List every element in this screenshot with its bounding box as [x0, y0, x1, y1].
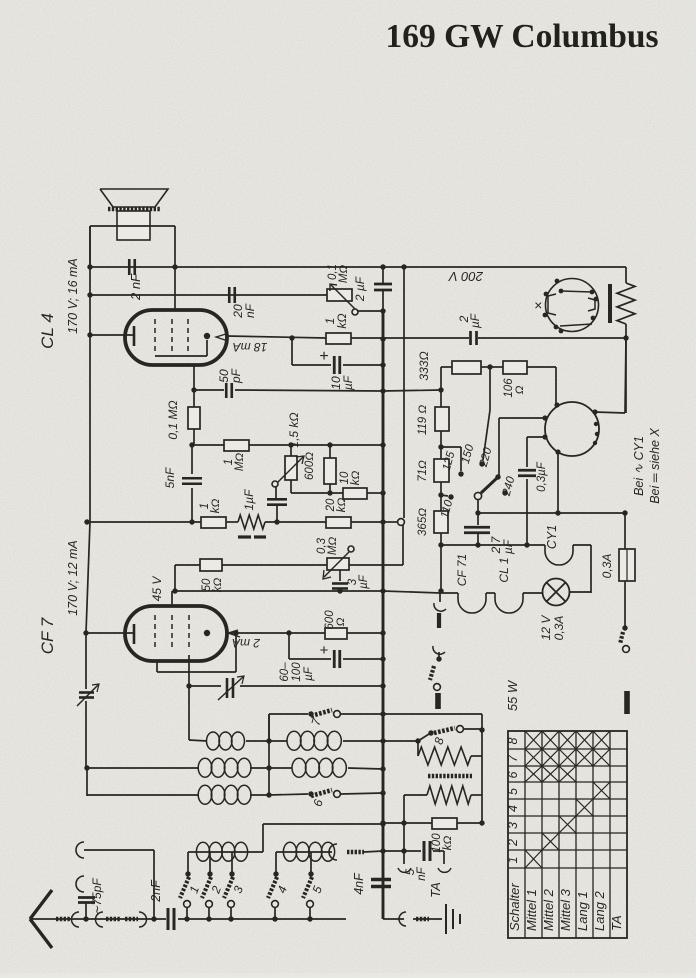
wire: CF7 interior down	[188, 655, 190, 686]
coil row 2 (y768)	[87, 758, 383, 777]
svg-text:0,3A: 0,3A	[552, 616, 566, 641]
wire: row1 extension to x482	[383, 714, 482, 823]
potentiometer 0,3 MOhm	[323, 546, 354, 579]
svg-text:1: 1	[506, 857, 520, 864]
capacitor 2nF antenna	[168, 908, 174, 930]
wire: heater top (y513)	[478, 512, 625, 514]
node: bus CF7 anode row	[380, 630, 385, 635]
heater dropper zigzag with bar	[610, 267, 635, 338]
node: bus band row	[380, 821, 385, 826]
svg-text:1µF: 1µF	[242, 489, 256, 511]
node: right edge anode wire	[623, 335, 628, 340]
node: anode/10uF junction	[289, 335, 294, 340]
wire: 200V rail	[88, 266, 626, 268]
svg-text:5nF: 5nF	[163, 467, 177, 488]
resistor 71 Ohm	[434, 447, 449, 495]
resistor zigzag (lower)	[404, 786, 482, 823]
node: x418	[415, 738, 420, 743]
node: bus 50pF row	[380, 388, 385, 393]
connector hook ground	[399, 912, 406, 926]
wire: right edge vertical	[625, 338, 627, 413]
svg-text:4nF: 4nF	[352, 872, 366, 895]
switch 6	[269, 790, 383, 797]
band coil left	[188, 842, 263, 861]
capacitor 3uF	[332, 570, 348, 591]
wire: 0,3M row	[175, 525, 403, 565]
svg-text:kΩ: kΩ	[442, 836, 454, 851]
svg-text:kΩ: kΩ	[335, 313, 349, 328]
wire: 100k row	[383, 822, 482, 824]
node: 3uF bottom	[337, 588, 342, 593]
node: rail x404 branch	[401, 264, 406, 269]
node: 150 tap	[438, 444, 443, 449]
wire: CL4 anode line	[227, 336, 626, 338]
svg-text:2nF: 2nF	[149, 879, 163, 903]
wire: corner into band coils	[262, 824, 264, 852]
node: rail row2	[84, 765, 89, 770]
node: chain top	[438, 387, 443, 392]
connector bars antenna	[56, 917, 138, 922]
wire: heater chain row	[441, 592, 591, 593]
CF7 cathode	[86, 624, 134, 644]
svg-text:45 V: 45 V	[150, 576, 164, 602]
svg-text:2: 2	[506, 839, 520, 847]
resistor 1 MOhm	[224, 440, 249, 451]
resistor 100 kOhm	[432, 818, 457, 829]
svg-text:2 µF: 2 µF	[353, 276, 367, 302]
loudspeaker	[100, 189, 168, 240]
wire: x404 vertical from rail	[403, 267, 405, 518]
capacitor 60-100uF electrolytic	[289, 633, 383, 668]
svg-text:MΩ: MΩ	[327, 537, 339, 556]
CF7 screen loop	[157, 633, 236, 672]
svg-text:+: +	[320, 642, 329, 659]
node: bus 10k row	[380, 490, 385, 495]
node: 5nF bottom	[189, 519, 194, 524]
svg-text:×: ×	[534, 297, 542, 313]
svg-text:CF 7: CF 7	[38, 617, 57, 654]
svg-text:119 Ω: 119 Ω	[417, 405, 429, 436]
table header numbers	[506, 737, 520, 863]
node: row3 tap	[266, 792, 271, 797]
tap 110	[441, 494, 454, 499]
coil row 1 (y741)	[189, 731, 383, 750]
CF7 anode	[204, 630, 210, 636]
svg-text:170 V; 12 mA: 170 V; 12 mA	[66, 540, 80, 616]
connector bar (coil to bus)	[347, 851, 383, 852]
node: rail 1k row	[84, 519, 89, 524]
svg-text:kΩ: kΩ	[212, 578, 224, 593]
svg-text:Mittel 2: Mittel 2	[541, 888, 556, 931]
node: screen junction	[191, 387, 196, 392]
wire: 1M row	[192, 444, 383, 446]
svg-text:Ω: Ω	[335, 617, 347, 626]
heater CL1 hump	[495, 593, 523, 613]
node: anode-60uF junction	[286, 630, 291, 635]
svg-text:2 nF: 2 nF	[128, 273, 143, 301]
node: 600 res top	[327, 442, 332, 447]
wire: main bus vertical	[382, 311, 385, 919]
svg-text:TA: TA	[609, 915, 624, 931]
svg-text:3: 3	[506, 822, 520, 829]
svg-text:CL 1: CL 1	[497, 557, 511, 582]
hook TA left	[398, 868, 411, 872]
wire: pot wiper to bus	[358, 310, 383, 312]
tap 150	[479, 367, 490, 467]
hook 75pF	[76, 876, 84, 892]
wire: selector up to CY1	[499, 418, 546, 477]
node 240	[502, 490, 507, 495]
svg-text:169 GW Columbus: 169 GW Columbus	[385, 18, 658, 55]
antenna	[30, 890, 56, 948]
core bar (hatched)	[428, 774, 472, 779]
node: bus 60uF row	[380, 656, 385, 661]
wire: 50pF row to resistor chain	[383, 390, 441, 391]
svg-text:MΩ: MΩ	[338, 265, 350, 284]
wire: 365 down to common	[440, 545, 442, 591]
svg-text:TA: TA	[428, 882, 443, 898]
svg-text:8: 8	[506, 737, 520, 744]
CL4 anode	[204, 333, 210, 339]
band coil right	[276, 842, 335, 861]
svg-text:71Ω: 71Ω	[417, 460, 429, 482]
dial lamp 12V 0,3A	[543, 579, 570, 606]
capacitor 5nF TA	[383, 841, 444, 861]
svg-text:CY1: CY1	[545, 525, 559, 549]
CY1 pins	[542, 402, 599, 454]
svg-text:60–: 60–	[279, 662, 291, 682]
svg-text:pF: pF	[229, 368, 243, 384]
node: coupling-2nF	[151, 916, 156, 921]
svg-text:7: 7	[506, 754, 520, 762]
node: row2 tap	[266, 765, 271, 770]
svg-text:365Ω: 365Ω	[417, 508, 429, 536]
resistor (600 row second)	[324, 445, 336, 493]
heater CY1 hump	[545, 545, 591, 593]
node: loop-anode	[233, 630, 238, 635]
resistor 1 kOhm (CL4 anode)	[326, 333, 351, 344]
coil row 3 (y795)	[87, 785, 269, 804]
resistor 119 Ohm	[435, 390, 449, 447]
heater CF71 hump	[458, 593, 486, 613]
svg-text:µF: µF	[501, 539, 515, 554]
wire: CF7 anode row	[227, 632, 383, 634]
band switch contact 1	[180, 852, 190, 919]
svg-text:µF: µF	[341, 375, 355, 390]
svg-text:6: 6	[506, 771, 520, 778]
capacitor 75pF trimmer	[78, 898, 95, 920]
CL4 screen bottom strap	[155, 340, 207, 356]
node: rail-cathode CL4	[87, 332, 92, 337]
CL4 cathode	[90, 326, 134, 346]
wire: x404 TA vertical	[403, 823, 405, 864]
table X marks	[525, 731, 610, 868]
node: tap 2	[207, 871, 212, 876]
resistor 1 kOhm (cathode)	[201, 517, 226, 528]
wire: screen feed	[90, 294, 327, 296]
svg-text:200 V: 200 V	[448, 269, 484, 284]
mains switch right	[620, 625, 629, 652]
svg-text:nF: nF	[243, 303, 257, 318]
svg-text:Schalter: Schalter	[507, 883, 522, 931]
wire: CL4 screen lower	[194, 365, 383, 391]
fuse 0,3A	[619, 549, 635, 628]
switch 7	[269, 710, 383, 741]
wire: mains left lead	[439, 593, 441, 602]
node: bus 1M row	[380, 442, 385, 447]
node: bus 5nF row	[380, 848, 385, 853]
node: rail/transformer left	[87, 264, 92, 269]
svg-text:Ω: Ω	[514, 385, 526, 394]
node: x189 osc	[186, 683, 191, 688]
node: bus-anode wire	[380, 336, 385, 341]
band switch contact 2	[202, 852, 212, 919]
node: sw6 pivot	[308, 791, 313, 796]
node: tap 3	[229, 871, 234, 876]
svg-text:nF: nF	[416, 866, 428, 880]
wire: grid/heater common line	[175, 565, 440, 593]
CL4 grids (dashed)	[155, 319, 188, 355]
wire: CY1 anode to right edge	[595, 338, 626, 413]
node: rail/transformer right	[172, 264, 177, 269]
resistor 106 Ohm	[490, 361, 556, 404]
ground symbol	[446, 904, 460, 934]
wire: transformer to CL4 top	[174, 267, 176, 311]
hook antenna upper	[76, 842, 84, 858]
svg-text:+: +	[319, 348, 328, 365]
node: wire contact 3	[228, 916, 233, 921]
wire: right edge fuse lead	[624, 513, 626, 549]
mains prong left	[435, 693, 441, 709]
switch 8	[383, 726, 482, 741]
contact circle right of bus	[383, 519, 404, 526]
svg-text:0,3A: 0,3A	[600, 554, 614, 579]
voltage selector arm	[474, 474, 500, 499]
svg-text:1,5 kΩ: 1,5 kΩ	[287, 412, 301, 447]
capacitor 0,3uF	[518, 437, 545, 545]
svg-text:MΩ: MΩ	[234, 453, 246, 472]
arrow anode CL4	[216, 334, 228, 341]
node: 333-106 junction	[487, 364, 492, 369]
wire: CY1 cathode down	[557, 452, 559, 513]
node: wire contact 2	[206, 916, 211, 921]
svg-text:µF: µF	[468, 313, 482, 328]
tube CL4	[125, 310, 227, 365]
hook TA right	[438, 851, 451, 872]
svg-text:Mittel 1: Mittel 1	[524, 889, 539, 931]
node: bus-wiper	[380, 308, 385, 313]
svg-text:∼75pF: ∼75pF	[90, 878, 104, 916]
node: 365 bottom row	[438, 542, 443, 547]
node: 110 tap	[438, 492, 443, 497]
node: selector bottom	[475, 510, 480, 515]
svg-text:12 V: 12 V	[539, 615, 553, 641]
wire: antenna line	[56, 918, 346, 920]
node: tap 1	[185, 871, 190, 876]
node: sw7 pivot	[308, 711, 313, 716]
wire: bus bottom to ground	[383, 889, 442, 919]
node: 600 pot top	[288, 442, 293, 447]
wire: 10k row	[291, 492, 383, 494]
resistor 333 Ohm	[441, 361, 490, 390]
node: wire contact 4	[272, 916, 277, 921]
wire: heater mid (y545)	[441, 544, 545, 546]
node: bus row sw7	[380, 711, 385, 716]
resistor 50 kOhm	[200, 559, 222, 571]
connector mains left	[433, 603, 446, 658]
resistor zigzag (osc feedback upper)	[418, 741, 482, 765]
tube socket X	[543, 279, 599, 334]
capacitor 2uF (anode line)	[471, 331, 477, 345]
node: common-441	[438, 588, 443, 593]
tap 125	[441, 447, 464, 477]
node: 2,7uF bottom	[475, 542, 480, 547]
table band names	[507, 883, 624, 931]
node: bus row1	[380, 738, 385, 743]
node: right edge heater	[622, 510, 627, 515]
svg-text:0,1 MΩ: 0,1 MΩ	[166, 400, 180, 439]
svg-text:Mittel 3: Mittel 3	[558, 888, 573, 931]
node: grid CF7	[172, 588, 177, 593]
switch table (Schalter)	[508, 731, 627, 938]
capacitor 5nF	[182, 445, 202, 522]
svg-text:CF 71: CF 71	[455, 554, 469, 586]
node: x404 100k row	[401, 820, 406, 825]
capacitor 50pF	[226, 383, 232, 398]
svg-text:100: 100	[291, 662, 303, 682]
node: wire contact 1	[184, 916, 189, 921]
node: grid-R junction	[189, 442, 194, 447]
band switch contact 3	[224, 852, 234, 919]
node: row1 tap	[266, 738, 271, 743]
node: rail-screen	[87, 292, 92, 297]
output transformer loop	[90, 226, 175, 267]
svg-text:600Ω: 600Ω	[304, 452, 316, 480]
capacitor 10uF electrolytic	[292, 338, 383, 374]
variable capacitor (antenna gang)	[77, 684, 99, 706]
wire: grid entry CF7	[171, 591, 173, 607]
node: tap 4	[273, 871, 278, 876]
resistor 600 Ohm (CF7 anode)	[325, 628, 347, 639]
wire: osc row	[189, 685, 383, 687]
svg-text:kΩ: kΩ	[350, 471, 362, 486]
capacitor 20nF	[229, 287, 235, 303]
capacitor 2,7uF	[464, 513, 490, 545]
resistor zigzag with bar	[238, 515, 266, 537]
svg-text:Bei ═ siehe X: Bei ═ siehe X	[648, 428, 662, 504]
node: 0,3uF bottom	[524, 542, 529, 547]
svg-text:µF: µF	[303, 666, 315, 681]
connector bar ground	[416, 917, 429, 922]
capacitor 1uF	[267, 486, 287, 522]
potentiometer 0,1 MOhm	[327, 284, 358, 315]
svg-text:kΩ: kΩ	[336, 498, 348, 513]
wire: antenna coupling top	[84, 850, 154, 919]
connector hooks antenna	[72, 912, 147, 927]
capacitor 2nF	[129, 259, 135, 275]
node: bus row2	[380, 766, 385, 771]
band switch contact 5	[303, 852, 313, 919]
node: x482 sw8	[479, 727, 484, 732]
svg-text:Bei ∿ CY1: Bei ∿ CY1	[632, 436, 646, 496]
svg-text:Lang 2: Lang 2	[592, 890, 607, 931]
resistor 10 kOhm	[343, 488, 367, 499]
node: bus row3	[380, 790, 385, 795]
capacitor 4nF (bus)	[371, 880, 391, 887]
resistor 20 kOhm	[326, 517, 351, 528]
node: bus-10uF	[380, 362, 385, 367]
node: x404 5nF row	[401, 848, 406, 853]
svg-text:µF: µF	[358, 574, 370, 589]
node: x482 100k row	[479, 820, 484, 825]
rectifier tube CY1 (circle)	[545, 402, 599, 456]
tube CF7	[125, 606, 227, 661]
wire: selector down	[477, 500, 479, 513]
svg-text:kΩ: kΩ	[210, 499, 222, 514]
mains switch left	[430, 656, 442, 690]
resistor 0,1 MOhm (grid CL4)	[188, 390, 200, 445]
wire: band coil row top (y824)	[263, 823, 383, 825]
capacitor 2uF (bus top)	[374, 267, 392, 311]
svg-text:Lang 1: Lang 1	[575, 891, 590, 931]
node: CY1-heater wire	[555, 510, 560, 515]
node: bus osc row	[380, 683, 385, 688]
node: rail-cathode CF7	[83, 630, 88, 635]
svg-text:0,3µF: 0,3µF	[536, 461, 548, 492]
potentiometer 600 Ohm	[272, 445, 304, 493]
node: sw8 pivot	[428, 730, 433, 735]
connector hook (coil to bus)	[329, 844, 337, 860]
mains prong right	[624, 691, 630, 714]
svg-text:4: 4	[506, 805, 520, 812]
node: tap 5	[308, 871, 313, 876]
CF7 grids (dashed)	[155, 615, 189, 651]
node: 600res bottom	[327, 490, 332, 495]
svg-text:55 W: 55 W	[505, 679, 520, 711]
arrow anode CF7	[228, 630, 240, 637]
wire: left rail	[86, 226, 90, 796]
node: wire contact 5	[307, 916, 312, 921]
svg-text:5: 5	[506, 788, 520, 795]
svg-text:18 mA: 18 mA	[233, 340, 268, 354]
svg-text:CL 4: CL 4	[38, 313, 57, 349]
node: bus 100k row	[380, 820, 385, 825]
node: antenna 75pF tap	[83, 916, 88, 921]
wire: contact bank vertical x269	[268, 714, 270, 795]
node: 1uF bottom	[274, 519, 279, 524]
band switch contact 4	[268, 852, 278, 919]
node: bus 20k row	[380, 519, 385, 524]
wire: 1k cathode row	[87, 521, 383, 523]
resistor 365 Ohm	[434, 495, 448, 545]
svg-text:170 V; 16 mA: 170 V; 16 mA	[66, 258, 80, 334]
svg-text:333Ω: 333Ω	[417, 351, 431, 380]
node: rail/main bus	[380, 264, 385, 269]
wire: x189 down to coils	[188, 686, 190, 740]
node: bus common line	[380, 588, 385, 593]
variable capacitor (osc)	[218, 676, 244, 700]
